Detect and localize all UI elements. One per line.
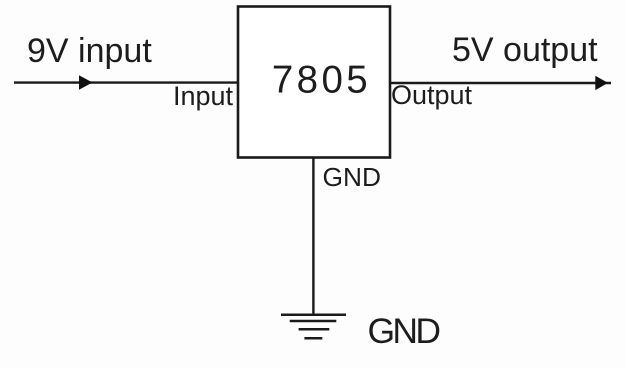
regulator U1 7805 body — [238, 7, 390, 158]
wire ground (vertical) — [312, 158, 314, 314]
svg-text:7805: 7805 — [272, 58, 371, 101]
svg-text:GND: GND — [323, 162, 381, 192]
wire output (right) — [391, 82, 611, 84]
arrowhead on output wire — [595, 76, 608, 90]
svg-text:5V output: 5V output — [452, 31, 598, 69]
svg-text:GND: GND — [368, 311, 440, 351]
svg-text:9V input: 9V input — [27, 32, 152, 70]
ground symbol — [281, 315, 346, 339]
arrowhead on input wire — [79, 75, 93, 90]
wire input (left) — [14, 81, 237, 83]
svg-text:Output: Output — [391, 80, 473, 110]
svg-text:Input: Input — [173, 81, 234, 111]
